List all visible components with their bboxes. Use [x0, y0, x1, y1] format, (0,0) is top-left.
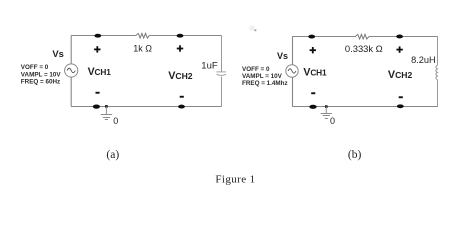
wire left circuit top right segment — [149, 35, 221, 37]
wire right circuit top right segment — [369, 36, 438, 38]
wire left circuit right vertical upper — [221, 36, 223, 73]
ground 0 (b) — [321, 107, 332, 119]
inductor L1 8.2uH — [436, 65, 438, 79]
svg-text:0: 0 — [113, 116, 118, 126]
wire left circuit left vertical — [70, 36, 72, 107]
wire right circuit right vertical upper — [437, 37, 439, 66]
voltage source Vs (a) — [65, 64, 78, 77]
resistor R1 1k — [136, 33, 150, 38]
ground 0 (a) — [101, 107, 112, 120]
svg-text:1k Ω: 1k Ω — [133, 44, 152, 54]
wire right circuit left vertical — [292, 37, 294, 107]
node dot top-right (a) — [177, 34, 184, 38]
svg-text:8.2uH: 8.2uH — [411, 55, 436, 65]
svg-text:0: 0 — [330, 116, 335, 126]
plus mark VCH1 (a) — [94, 46, 100, 52]
node dot bottom-right (a) — [178, 105, 185, 109]
junction dot ground (a) — [105, 105, 108, 108]
resistor R2 0.333k — [355, 34, 369, 39]
voltage source Vs (b) — [286, 65, 298, 77]
minus mark VCH2 (b) — [399, 96, 403, 98]
plus mark VCH1 (b) — [310, 47, 316, 53]
minus mark VCH1 (a) — [96, 92, 100, 94]
source params (b) — [242, 66, 288, 87]
node dot top-left (a) — [94, 34, 101, 38]
node dot bottom-right (b) — [397, 104, 404, 108]
source params (a) — [21, 64, 62, 86]
wire right circuit right vertical lower — [437, 80, 439, 107]
wire left circuit top left segment — [71, 35, 136, 37]
svg-text:VCH2: VCH2 — [388, 69, 413, 81]
svg-text:Vs: Vs — [277, 51, 288, 61]
svg-text:FREQ = 1.4Mhz: FREQ = 1.4Mhz — [242, 80, 288, 87]
wire right circuit bottom — [292, 106, 438, 108]
svg-text:VAMPL = 10V: VAMPL = 10V — [242, 73, 283, 80]
svg-text:VCH1: VCH1 — [303, 66, 327, 78]
svg-text:(a): (a) — [106, 149, 119, 161]
svg-text:VOFF = 0: VOFF = 0 — [242, 66, 270, 73]
wire left circuit bottom — [71, 106, 222, 108]
wire right circuit top left segment — [292, 36, 355, 38]
plus mark VCH2 (b) — [396, 46, 402, 52]
svg-text:0.333k Ω: 0.333k Ω — [345, 43, 383, 54]
svg-text:VCH1: VCH1 — [88, 66, 112, 78]
junction dot ground (b) — [325, 105, 328, 108]
node dot top-right (b) — [396, 35, 403, 39]
svg-text:Vs: Vs — [52, 48, 63, 59]
node dot bottom-left (b) — [309, 105, 316, 109]
minus mark VCH1 (b) — [311, 92, 315, 94]
svg-text:VAMPL = 10V: VAMPL = 10V — [21, 71, 62, 78]
node dot bottom-left (a) — [93, 105, 100, 109]
wire left circuit right vertical lower — [221, 77, 223, 107]
plus mark VCH2 (a) — [177, 45, 183, 51]
minus mark VCH2 (a) — [180, 96, 184, 98]
svg-text:(b): (b) — [348, 149, 362, 161]
svg-text:Figure 1: Figure 1 — [215, 174, 255, 186]
capacitor C1 1uF — [216, 72, 226, 75]
node dot top-left (b) — [308, 35, 315, 39]
svg-text:FREQ = 60Hz: FREQ = 60Hz — [21, 79, 60, 86]
svg-text:VCH2: VCH2 — [168, 70, 193, 82]
svg-text:1uF: 1uF — [201, 61, 218, 72]
scan smudge dot — [249, 25, 256, 31]
svg-text:VOFF = 0: VOFF = 0 — [21, 64, 49, 71]
